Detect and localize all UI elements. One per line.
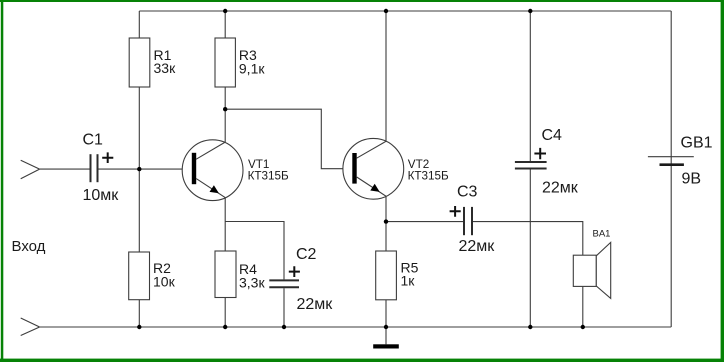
svg-text:1к: 1к <box>401 273 416 289</box>
svg-text:22мк: 22мк <box>297 296 334 313</box>
svg-text:GB1: GB1 <box>681 135 713 152</box>
svg-text:10к: 10к <box>153 274 176 290</box>
svg-text:КТ315Б: КТ315Б <box>248 170 289 183</box>
svg-text:3,3к: 3,3к <box>239 275 265 291</box>
svg-text:BA1: BA1 <box>593 229 611 240</box>
svg-text:10мк: 10мк <box>83 187 120 204</box>
svg-text:C3: C3 <box>457 184 478 201</box>
svg-text:C1: C1 <box>83 132 104 149</box>
svg-text:22мк: 22мк <box>459 238 496 255</box>
svg-text:C4: C4 <box>542 127 563 144</box>
svg-text:22мк: 22мк <box>542 180 579 197</box>
svg-text:9,1к: 9,1к <box>239 61 265 77</box>
svg-text:9В: 9В <box>682 171 702 188</box>
svg-text:C2: C2 <box>296 246 317 263</box>
svg-text:КТ315Б: КТ315Б <box>408 169 449 182</box>
svg-text:33к: 33к <box>154 60 177 76</box>
svg-text:Вход: Вход <box>12 238 46 255</box>
